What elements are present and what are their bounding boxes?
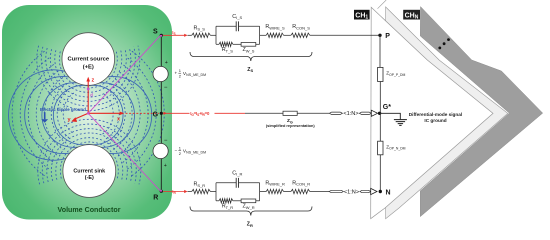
resistor Rt_s [219,42,233,46]
svg-text:(+E): (+E) [83,64,94,70]
brace Zr [190,207,312,216]
ellipsis dots [438,47,441,50]
cable symbol right (R) [360,190,371,192]
svg-text:Electric dipole ground: Electric dipole ground [40,107,86,112]
svg-text:G: G [153,112,159,119]
cable symbol left (R) [329,190,343,192]
wire to G* [379,82,381,114]
resistor Rwire_s [266,33,283,37]
svg-text:+: + [164,163,167,169]
y axis [74,113,89,119]
cable symbol left (G) [329,112,342,114]
svg-text:RCON_R: RCON_R [292,180,310,186]
z axis [87,81,89,114]
wire P down [379,35,381,67]
svg-text:S: S [153,28,158,35]
svg-text:Current sink: Current sink [73,168,105,174]
channel plane CH1 (front) [371,7,493,218]
resistor Rwire_r [266,189,283,193]
parallel RC network R [216,183,260,201]
wire R to Rs_r (red current) [163,191,187,193]
wire S to Rs_s (red current) [163,34,187,36]
noise source top [153,66,168,81]
current sink circle [63,145,116,198]
svg-text:Volume Conductor: Volume Conductor [58,206,121,214]
dashed arcs around current source [59,52,117,89]
x axis dashed continuation to G [126,112,160,114]
node S [160,34,163,37]
wire G red with current label [163,112,245,114]
solid current flow loops [53,85,88,144]
svg-text:−: − [164,138,168,144]
origin-centered dashed equipotential arcs [63,93,74,134]
svg-text:(simplified representation): (simplified representation) [266,123,316,128]
capacitor Ci_r [236,178,238,188]
svg-text:R: R [153,195,158,202]
svg-text:−: − [164,85,168,91]
x axis [88,112,120,114]
noise source bottom [153,143,168,158]
svg-text:<1:N>: <1:N> [344,189,359,195]
channel plane CHN (back, stepped stack of planes) [420,7,542,217]
impedance Zop_p_dm [378,67,383,81]
CHN label [403,10,420,20]
node G [160,112,163,115]
svg-text:Differential-mode signal: Differential-mode signal [409,112,462,117]
svg-text:Current source: Current source [68,57,110,63]
wire G* down [379,113,381,141]
parallel RC network S [216,26,260,44]
svg-text:z: z [92,78,95,84]
resistor Rs_r [192,189,211,193]
svg-text:RWIRE_R: RWIRE_R [265,180,285,186]
resistor Rs_s [192,33,211,37]
impedance Zg [283,111,297,115]
impedance Zw_s [241,43,256,47]
svg-text:ZR: ZR [247,222,253,228]
IC ground symbol [394,120,407,126]
volume conductor box [2,5,172,220]
dipole-to-electrode lines [88,35,160,113]
svg-text:CH1: CH1 [355,13,368,21]
channel plane 2 (middle) [386,7,508,219]
svg-text:ZW_S: ZW_S [243,47,255,53]
svg-text:+: + [165,60,168,66]
wire G* to IC ground [380,113,401,119]
node P [378,34,381,37]
node G* [378,112,381,115]
cable symbol right (G) [359,112,371,114]
svg-text:N: N [386,189,391,196]
svg-text:CHN: CHN [405,13,419,21]
dipole vector marker [87,88,90,91]
svg-text:ZS: ZS [247,67,253,73]
node N [379,190,382,193]
svg-text:RCON_S: RCON_S [292,24,310,30]
svg-text:ZW_R: ZW_R [243,204,255,210]
svg-text:RS_R: RS_R [194,182,206,188]
wire to node P [310,34,380,36]
wire to N [379,155,381,192]
svg-text:<1:N>: <1:N> [343,111,358,117]
buffer triangle (G) [371,110,377,116]
svg-text:−: − [175,148,178,153]
svg-text:(-E): (-E) [85,175,94,181]
resistor Rcon_s [291,33,310,37]
resistor Rcon_r [291,189,310,193]
impedance Zop_n_dm [378,141,383,155]
svg-text:RWIRE_S: RWIRE_S [265,24,285,30]
svg-text:RS_S: RS_S [194,25,206,31]
resistor Rt_r [219,199,233,203]
impedance Zw_r [241,199,256,203]
node R [160,190,163,193]
svg-text:P: P [385,33,390,40]
svg-text:+: + [175,71,178,76]
dashed arcs around current sink [60,142,118,179]
electrode line S-G-R [160,35,162,191]
svg-text:CI_S: CI_S [232,14,242,20]
current source circle [62,33,115,86]
svg-text:CI_R: CI_R [232,170,242,176]
brace Zs [190,52,312,61]
svg-text:d: d [90,93,93,98]
svg-text:RT_S: RT_S [222,47,234,53]
CH1 label [354,10,370,20]
buffer triangle (R) [371,188,377,194]
svg-text:RT_R: RT_R [222,204,234,210]
svg-text:IC ground: IC ground [424,118,446,123]
capacitor Ci_s [236,21,238,31]
svg-text:G*: G* [383,104,391,111]
plane 2 top bevel [378,0,387,9]
